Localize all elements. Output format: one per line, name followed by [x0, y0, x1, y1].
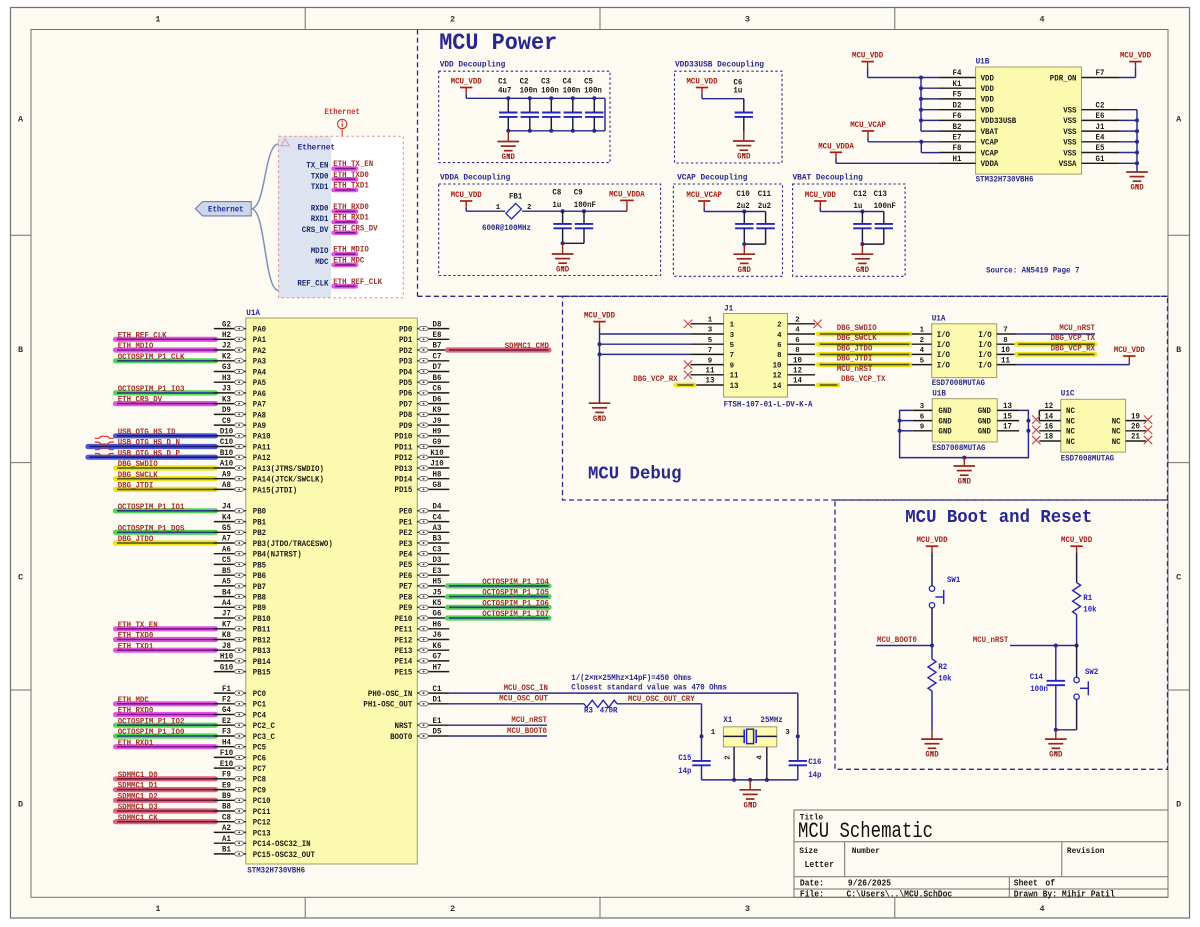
svg-text:PC14-OSC32_IN: PC14-OSC32_IN [253, 840, 311, 849]
no connect U1C pin 19 [1144, 415, 1152, 423]
U1A pin A10 PA13(JTMS/SWDIO) [214, 467, 246, 469]
svg-text:1u: 1u [733, 87, 742, 96]
svg-text:Revision: Revision [1067, 846, 1105, 856]
svg-text:11: 11 [730, 372, 739, 381]
svg-text:MCU_OSC_OUT: MCU_OSC_OUT [499, 695, 548, 704]
svg-text:A8: A8 [222, 481, 231, 490]
svg-text:D5: D5 [433, 728, 442, 737]
svg-text:PD2: PD2 [399, 347, 412, 356]
U1A pin F10 PC6 [214, 756, 246, 758]
svg-text:12: 12 [773, 372, 782, 381]
svg-text:Size: Size [799, 846, 818, 856]
U1C ESD pin 20 NC [1126, 430, 1146, 432]
svg-text:600R@100MHz: 600R@100MHz [482, 223, 531, 233]
U1A pin D5 BOOT0 [417, 735, 449, 737]
U1A pin A4 PB9 [214, 606, 246, 608]
U1A pin B5 PB6 [214, 574, 246, 576]
svg-text:ETH_TXD1: ETH_TXD1 [118, 642, 154, 651]
svg-text:MCU Schematic: MCU Schematic [798, 819, 933, 844]
svg-text:H1: H1 [953, 155, 962, 164]
wire net ETH_RXD0 highlight [116, 712, 216, 717]
svg-text:MCU Debug: MCU Debug [588, 463, 682, 484]
U1A pin K3 PA7 [214, 403, 246, 405]
svg-text:12: 12 [793, 367, 802, 376]
svg-text:Date:: Date: [800, 878, 824, 888]
svg-text:GND: GND [978, 428, 991, 437]
svg-text:PB5: PB5 [253, 561, 266, 570]
svg-text:PB0: PB0 [253, 508, 266, 517]
svg-text:9: 9 [920, 424, 924, 432]
wire net DBG_JTDI highlight [818, 362, 910, 367]
svg-text:PB1: PB1 [253, 519, 266, 528]
svg-text:19: 19 [1131, 412, 1140, 421]
svg-text:15: 15 [1003, 412, 1012, 421]
svg-text:G6: G6 [433, 610, 442, 619]
svg-text:2: 2 [777, 322, 781, 330]
svg-text:PB15: PB15 [253, 669, 271, 678]
wire MCU_nRST [1010, 645, 1077, 647]
svg-text:1/(2×π×25Mhz×14pF)=450 Ohms: 1/(2×π×25Mhz×14pF)=450 Ohms [571, 673, 691, 683]
svg-text:1: 1 [708, 317, 713, 325]
svg-text:GND: GND [737, 153, 750, 162]
svg-text:ETH_MDC: ETH_MDC [333, 256, 364, 265]
svg-text:I/O: I/O [978, 350, 991, 360]
svg-text:DBG_JTDI: DBG_JTDI [118, 482, 154, 491]
svg-text:PA10: PA10 [253, 433, 271, 442]
svg-text:G5: G5 [222, 524, 231, 533]
svg-text:MCU_nRST: MCU_nRST [511, 716, 547, 725]
svg-text:A10: A10 [220, 460, 233, 469]
wire net OCTOSPIM_P1_IO7 highlight [448, 615, 550, 620]
svg-text:PE4: PE4 [399, 551, 412, 560]
svg-text:PA15(JTDI): PA15(JTDI) [253, 485, 297, 495]
J1 pin 3 [690, 333, 723, 335]
svg-text:2: 2 [450, 904, 455, 914]
svg-text:A1: A1 [222, 835, 231, 844]
svg-text:PB8: PB8 [253, 594, 266, 603]
svg-text:4: 4 [777, 332, 782, 340]
svg-text:8: 8 [1003, 337, 1008, 345]
svg-text:C14: C14 [1030, 673, 1043, 682]
svg-text:11: 11 [706, 367, 715, 376]
svg-text:C1: C1 [433, 685, 442, 694]
svg-text:OCTOSPIM_P1_IO0: OCTOSPIM_P1_IO0 [118, 728, 185, 737]
svg-text:Sheet: Sheet [1014, 878, 1038, 888]
U1A pin J2 PA2 [214, 349, 246, 351]
wire VDD rail branch [921, 87, 939, 89]
J1 pin 10 [788, 364, 816, 366]
svg-text:MCU_nRST: MCU_nRST [837, 365, 873, 374]
svg-text:5: 5 [708, 337, 713, 345]
wire VSS rail branch [1119, 162, 1137, 164]
U1A ESD pin 8 I/O [997, 343, 1017, 345]
svg-text:J6: J6 [433, 631, 442, 640]
diode array U1B ESD7008MUTAG body [932, 399, 997, 442]
U1C ESD pin 12 NC [1039, 409, 1061, 411]
U1A pin K4 PB1 [214, 521, 246, 523]
svg-text:TXD0: TXD0 [311, 172, 329, 181]
svg-text:ETH_TX_EN: ETH_TX_EN [118, 621, 158, 630]
U1A pin K6 PE13 [417, 649, 449, 651]
svg-text:C3: C3 [433, 545, 442, 554]
svg-text:DBG_JTDI: DBG_JTDI [837, 355, 873, 364]
U1A pin J10 PD13 [417, 467, 449, 469]
svg-text:D9: D9 [222, 406, 231, 415]
svg-text:NC: NC [1112, 417, 1121, 426]
svg-text:MCU_VDD: MCU_VDD [1061, 536, 1092, 545]
svg-text:VSS: VSS [1063, 149, 1076, 158]
U1A pin A7 PB3(JTDO/TRACESWO) [214, 542, 246, 544]
svg-text:MCU_VDDA: MCU_VDDA [818, 142, 854, 151]
svg-text:C5: C5 [584, 78, 593, 87]
U1B pin G1 VSSA [1082, 162, 1120, 164]
U1A pin G9 PD11 [417, 446, 449, 448]
svg-text:C: C [18, 572, 23, 582]
wire MCU_OSC_IN down to crystal [797, 693, 799, 736]
U1A pin B4 PB8 [214, 596, 246, 598]
svg-text:8: 8 [777, 352, 782, 360]
svg-text:ETH_CRS_DV: ETH_CRS_DV [118, 396, 163, 405]
svg-text:PB3(JTDO/TRACESWO): PB3(JTDO/TRACESWO) [253, 539, 333, 549]
svg-text:K9: K9 [433, 406, 442, 415]
U1A pin E8 PD1 [417, 338, 449, 340]
svg-text:J10: J10 [430, 460, 443, 469]
diode array U1A ESD7008MUTAG body [932, 324, 997, 378]
svg-text:PA13(JTMS/SWDIO): PA13(JTMS/SWDIO) [253, 464, 324, 474]
U1A pin G10 PB15 [214, 671, 246, 673]
wire net OCTOSPIM_P1_DQS highlight [116, 530, 216, 535]
svg-text:10: 10 [773, 361, 782, 370]
wire net DBG_JTDI highlight [116, 487, 216, 492]
svg-text:9/26/2025: 9/26/2025 [848, 878, 891, 888]
svg-text:PC7: PC7 [253, 765, 266, 774]
svg-text:470R: 470R [600, 707, 618, 716]
svg-text:VCAP: VCAP [981, 139, 999, 148]
svg-text:12: 12 [1044, 402, 1053, 411]
svg-text:A6: A6 [222, 545, 231, 554]
wire net SDMMC1_CMD highlight [448, 347, 550, 352]
svg-text:H6: H6 [433, 621, 442, 630]
U1B pin F7 PDR_ON [1082, 77, 1120, 79]
svg-text:14: 14 [793, 377, 802, 386]
svg-text:K1: K1 [953, 80, 962, 89]
svg-text:E2: E2 [222, 717, 231, 726]
svg-text:17: 17 [1003, 423, 1012, 432]
U1A pin B3 PE3 [417, 542, 449, 544]
svg-text:MCU_VDD: MCU_VDD [1114, 346, 1145, 355]
svg-text:B1: B1 [222, 846, 231, 855]
svg-text:PD10: PD10 [395, 433, 413, 442]
svg-text:D4: D4 [433, 503, 442, 512]
svg-text:VBAT Decoupling: VBAT Decoupling [793, 173, 863, 183]
wire net DBG_SWDIO highlight [116, 465, 216, 470]
svg-text:E8: E8 [433, 331, 442, 340]
svg-text:G8: G8 [433, 481, 442, 490]
svg-text:F9: F9 [222, 771, 231, 780]
U1A pin F1 PC0 [214, 692, 246, 694]
svg-text:PA12: PA12 [253, 454, 271, 463]
U1A pin A3 PE2 [417, 531, 449, 533]
svg-text:4: 4 [1040, 15, 1045, 25]
wire VDD vertical rail [920, 78, 922, 132]
svg-text:SDMMC1_D1: SDMMC1_D1 [118, 782, 158, 791]
U1C ESD pin 18 NC [1039, 440, 1061, 442]
svg-text:J8: J8 [222, 642, 231, 651]
svg-text:A4: A4 [222, 599, 231, 608]
svg-text:Source: AN5419 Page 7: Source: AN5419 Page 7 [986, 267, 1079, 276]
no connect U1C pin 16 [1032, 426, 1040, 434]
U1A pin J7 PB10 [214, 617, 246, 619]
svg-text:U1C: U1C [1061, 389, 1075, 399]
no connect U1C pin 14 [1032, 415, 1040, 423]
svg-text:FB1: FB1 [509, 192, 522, 201]
svg-text:PB12: PB12 [253, 636, 271, 645]
wire net DBG_JTDO highlight [818, 352, 910, 357]
svg-text:ESD7008MUTAG: ESD7008MUTAG [1061, 455, 1114, 464]
svg-text:GND: GND [1130, 184, 1143, 193]
U1A pin D6 PD7 [417, 403, 449, 405]
svg-text:J1: J1 [724, 304, 733, 314]
svg-text:MCU_nRST: MCU_nRST [1059, 324, 1095, 333]
svg-text:GND: GND [958, 478, 971, 487]
svg-text:C2: C2 [1096, 101, 1105, 110]
svg-text:K5: K5 [433, 599, 442, 608]
svg-text:21: 21 [1131, 433, 1140, 442]
svg-text:C7: C7 [433, 353, 442, 362]
U1B pin E6 VSS [1082, 119, 1120, 121]
U1A pin C3 PE4 [417, 553, 449, 555]
svg-text:D2: D2 [953, 101, 962, 110]
wire MCU_BOOT0 [876, 645, 932, 647]
svg-text:K4: K4 [222, 513, 231, 522]
svg-text:OCTOSPIM_P1_IO2: OCTOSPIM_P1_IO2 [118, 717, 185, 726]
U1B pin H1 VDDA [939, 162, 976, 164]
svg-text:GND: GND [938, 428, 951, 437]
U1A pin B8 PC11 [214, 810, 246, 812]
svg-text:F8: F8 [953, 144, 962, 153]
svg-text:B5: B5 [222, 567, 231, 576]
svg-text:K10: K10 [430, 449, 443, 458]
svg-text:DBG_SWDIO: DBG_SWDIO [837, 324, 877, 333]
svg-text:1: 1 [155, 15, 160, 25]
svg-text:PE1: PE1 [399, 518, 412, 527]
svg-text:VBAT: VBAT [981, 128, 999, 137]
svg-text:PD1: PD1 [399, 336, 412, 345]
svg-text:PE6: PE6 [399, 572, 412, 581]
wire VSS rail branch [1119, 130, 1137, 132]
svg-text:A2: A2 [222, 824, 231, 833]
svg-text:PA4: PA4 [253, 368, 266, 377]
svg-text:A: A [18, 114, 24, 124]
svg-text:BOOT0: BOOT0 [390, 733, 412, 742]
wire crystal pins 2 and 4 to ground rail [733, 747, 735, 780]
crystal X1 symbol [723, 735, 744, 737]
wire FB1 to MCU_VDDA [522, 210, 627, 212]
U1B pin K1 VDD [939, 87, 976, 89]
U1B pin E7 VCAP [939, 141, 976, 143]
svg-text:G9: G9 [433, 438, 442, 447]
wire U1B ESD ground right rail [964, 410, 1028, 457]
title block frame [794, 810, 1168, 897]
J1 pin 2 [788, 323, 816, 325]
svg-text:4: 4 [795, 327, 800, 335]
U1B ESD pin 6 GND [913, 420, 933, 422]
svg-text:USB_OTG_HS_D_P: USB_OTG_HS_D_P [118, 449, 180, 458]
svg-text:PB2: PB2 [253, 529, 266, 538]
svg-text:K3: K3 [222, 395, 231, 404]
wire net ETH_RXD1 highlight [116, 744, 216, 749]
svg-text:100n: 100n [520, 87, 538, 96]
svg-text:9: 9 [730, 362, 734, 370]
svg-text:B4: B4 [222, 588, 231, 597]
svg-text:U1A: U1A [932, 314, 946, 324]
ground GND (VDD33USB) [743, 140, 745, 143]
svg-text:PD3: PD3 [399, 358, 412, 367]
svg-text:B2: B2 [953, 123, 962, 132]
svg-text:100n: 100n [584, 87, 602, 96]
svg-text:PC12: PC12 [253, 819, 271, 828]
wire net SDMMC1_D3 highlight [116, 808, 216, 813]
svg-text:3: 3 [785, 729, 790, 737]
svg-text:GND: GND [938, 417, 951, 426]
svg-text:6: 6 [795, 337, 800, 345]
svg-text:VSS: VSS [1063, 139, 1076, 148]
VDD Decoupling dashed box [439, 71, 610, 162]
svg-text:3: 3 [745, 904, 750, 914]
ground GND (VDDA) [562, 243, 564, 254]
svg-text:A9: A9 [222, 470, 231, 479]
no connect J1 pin 1 [684, 320, 692, 328]
U1A pin H10 PB14 [214, 660, 246, 662]
svg-text:1: 1 [496, 204, 501, 212]
U1A pin D1 PH1-OSC_OUT [417, 703, 449, 705]
svg-text:PA2: PA2 [253, 347, 266, 356]
svg-text:D7: D7 [433, 363, 442, 372]
svg-text:RXD0: RXD0 [311, 204, 329, 213]
svg-text:ETH_MDIO: ETH_MDIO [118, 342, 154, 351]
svg-text:C9: C9 [574, 188, 583, 197]
svg-text:PA3: PA3 [253, 358, 266, 367]
wire VBAT branch [921, 130, 939, 132]
U1A pin D4 PE0 [417, 510, 449, 512]
ground GND (boot) [931, 738, 933, 741]
svg-text:NRST: NRST [395, 722, 413, 731]
U1A pin E9 PC9 [214, 789, 246, 791]
svg-text:PH1-OSC_OUT: PH1-OSC_OUT [363, 701, 412, 710]
diode array U1C ESD7008MUTAG body [1061, 399, 1126, 452]
crystal X1 25MHz body [723, 727, 776, 747]
svg-text:ETH_MDIO: ETH_MDIO [333, 246, 369, 255]
svg-text:1: 1 [155, 904, 160, 914]
svg-text:J2: J2 [222, 342, 231, 351]
wire net USB_OTG_HS_ID highlight [116, 433, 216, 438]
svg-text:OCTOSPIM_P1_CLK: OCTOSPIM_P1_CLK [118, 353, 185, 362]
wire MCU_VDD to SW1 [931, 552, 933, 585]
svg-text:B6: B6 [433, 374, 442, 383]
svg-text:VCAP Decoupling: VCAP Decoupling [677, 173, 747, 183]
svg-text:PE5: PE5 [399, 561, 412, 570]
svg-text:K7: K7 [222, 621, 231, 630]
svg-text:10k: 10k [1083, 605, 1096, 615]
VCAP Decoupling dashed box [673, 184, 782, 276]
U1A pin H3 PA5 [214, 381, 246, 383]
svg-text:25MHz: 25MHz [761, 716, 783, 725]
svg-text:MCU_VDD: MCU_VDD [451, 191, 482, 200]
U1A pin J4 PB0 [214, 510, 246, 512]
U1A pin D8 PD0 [417, 328, 449, 330]
svg-text:DBG_VCP_TX: DBG_VCP_TX [841, 375, 886, 384]
svg-text:100n: 100n [541, 87, 559, 96]
svg-text:ESD7008MUTAG: ESD7008MUTAG [932, 444, 985, 453]
wire net DBG_SWCLK highlight [116, 476, 216, 481]
J1 pin 4 [788, 333, 816, 335]
svg-text:F3: F3 [222, 728, 231, 737]
U1A ESD pin 1 I/O [912, 333, 932, 335]
U1C ESD pin 16 NC [1039, 430, 1061, 432]
svg-text:B: B [1176, 345, 1181, 355]
U1A pin H5 PE7 [417, 585, 449, 587]
U1A pin A8 PA15(JTDI) [214, 488, 246, 490]
svg-text:100nF: 100nF [874, 202, 896, 211]
wire MCU_VDD to FB1 [465, 207, 467, 211]
svg-text:3: 3 [745, 15, 750, 25]
wire net SDMMC1_D2 highlight [116, 798, 216, 803]
svg-text:FTSH-107-01-L-DV-K-A: FTSH-107-01-L-DV-K-A [724, 401, 813, 410]
wire R2 to GND [931, 691, 933, 730]
svg-text:C8: C8 [222, 813, 231, 822]
svg-text:1u: 1u [853, 202, 862, 211]
svg-text:PB7: PB7 [253, 583, 266, 592]
svg-text:PC15-OSC32_OUT: PC15-OSC32_OUT [253, 851, 315, 860]
U1A pin F3 PC3_C [214, 735, 246, 737]
harness brace [251, 144, 278, 291]
svg-text:PE11: PE11 [395, 626, 413, 635]
svg-text:2: 2 [450, 15, 455, 25]
svg-text:K6: K6 [433, 642, 442, 651]
U1A pin K5 PE9 [417, 606, 449, 608]
J1 pin 5 [690, 343, 723, 345]
svg-text:MDIO: MDIO [311, 247, 329, 256]
svg-text:C6: C6 [433, 385, 442, 394]
U1B ESD pin 15 GND [997, 420, 1019, 422]
svg-text:C5: C5 [222, 556, 231, 565]
svg-text:GND: GND [856, 266, 869, 275]
svg-text:9: 9 [708, 357, 712, 365]
J1 pin 14 [788, 384, 816, 386]
svg-text:MCU_VDD: MCU_VDD [852, 52, 883, 61]
wire C13 bottom to C12 [862, 243, 883, 245]
svg-text:18: 18 [1044, 433, 1053, 442]
svg-text:PE2: PE2 [399, 529, 412, 538]
svg-text:C2: C2 [520, 78, 529, 87]
svg-text:A5: A5 [222, 578, 231, 587]
U1C ESD pin 14 NC [1039, 420, 1061, 422]
MCU Power section dashed boundary [417, 30, 419, 297]
svg-text:4: 4 [757, 755, 765, 760]
wire net DBG_SWDIO highlight [818, 332, 910, 337]
svg-text:PD9: PD9 [399, 422, 412, 431]
svg-text:C12: C12 [853, 190, 866, 199]
svg-text:Number: Number [852, 846, 880, 856]
svg-text:OCTOSPIM_P1_IO3: OCTOSPIM_P1_IO3 [118, 385, 185, 394]
MCU Debug section dashed box [563, 296, 1168, 500]
differential pair marker (USB_OTG_HS_D_N) [95, 436, 114, 438]
svg-text:ETH_TXD0: ETH_TXD0 [118, 632, 154, 641]
svg-text:ETH_CRS_DV: ETH_CRS_DV [333, 224, 378, 233]
svg-text:GND: GND [1049, 751, 1062, 760]
svg-text:MCU Power: MCU Power [439, 30, 557, 56]
harness box dashed border [279, 136, 404, 297]
